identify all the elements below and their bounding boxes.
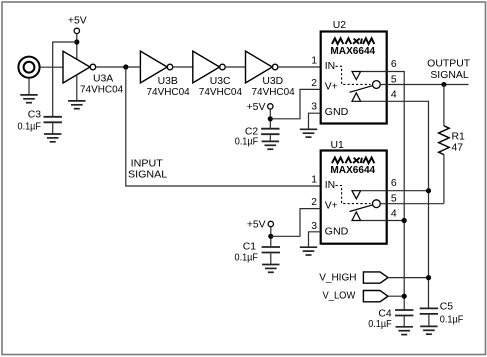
high-side driver triangle [352, 191, 361, 199]
svg-text:INPUT: INPUT [131, 159, 164, 170]
dashed net IN- to switch [336, 186, 371, 204]
capacitor C3 [18, 110, 62, 134]
svg-text:C1: C1 [243, 241, 257, 252]
svg-text:0.1µF: 0.1µF [235, 136, 259, 147]
svg-text:3: 3 [311, 102, 317, 113]
wire [96, 66, 141, 68]
connector J1 [18, 57, 39, 78]
svg-text:3: 3 [311, 221, 317, 232]
svg-text:U3C: U3C [210, 76, 231, 87]
wire V+ U1 [271, 209, 321, 237]
junction [74, 39, 79, 44]
low-side driver triangle [352, 212, 361, 221]
svg-text:74VHC04: 74VHC04 [80, 85, 123, 96]
switch output bubble pin5 [373, 200, 381, 208]
svg-text:OUTPUT: OUTPUT [427, 58, 471, 69]
svg-text:+5V: +5V [247, 102, 266, 113]
low-side driver triangle [352, 93, 361, 102]
node OUTPUT SIGNAL [427, 58, 471, 81]
svg-text:0.1µF: 0.1µF [235, 252, 259, 263]
svg-text:47: 47 [452, 143, 464, 154]
ground [262, 265, 279, 273]
svg-text:IN: IN [325, 180, 335, 191]
capacitor C5 [420, 302, 464, 327]
ground [20, 95, 37, 103]
svg-text:MAX6644: MAX6644 [330, 46, 375, 57]
svg-text:+5V: +5V [68, 15, 87, 26]
wire [76, 34, 78, 60]
svg-text:5: 5 [391, 194, 397, 205]
capacitor C4 [368, 308, 413, 330]
wire [225, 66, 245, 68]
wire pin4 U2 [361, 101, 429, 308]
IC U1 MAX6644 [321, 140, 387, 244]
inverter U3B 74VHC04 [140, 51, 190, 98]
wire [270, 227, 272, 247]
+5V supply U1 [247, 219, 274, 230]
ground [44, 134, 61, 142]
switch wiper [350, 205, 373, 212]
junction [268, 234, 273, 239]
svg-text:U2: U2 [333, 20, 347, 31]
svg-text:MAX6644: MAX6644 [330, 165, 375, 176]
svg-text:0.1µF: 0.1µF [368, 319, 392, 330]
ground [396, 327, 413, 335]
svg-text:U3D: U3D [262, 76, 283, 87]
svg-text:1: 1 [311, 175, 317, 186]
svg-text:74VHC04: 74VHC04 [252, 87, 295, 98]
wire [269, 109, 271, 128]
svg-text:6: 6 [391, 178, 397, 189]
svg-text:1: 1 [311, 55, 317, 66]
svg-text:2: 2 [311, 78, 317, 89]
+5V supply U2 [247, 102, 273, 113]
high-side driver triangle [352, 72, 361, 80]
svg-text:+5V: +5V [247, 219, 266, 230]
node V_LOW [323, 291, 389, 302]
ground [68, 101, 85, 109]
svg-text:C4: C4 [378, 308, 392, 319]
svg-text:V_HIGH: V_HIGH [319, 272, 356, 283]
junction [402, 294, 407, 299]
svg-text:U3A: U3A [93, 74, 113, 85]
wire pin4 U1 [361, 220, 405, 222]
svg-text:2: 2 [311, 197, 317, 208]
svg-text:IN: IN [325, 61, 335, 72]
svg-text:74VHC04: 74VHC04 [199, 87, 242, 98]
node V_HIGH [319, 272, 388, 284]
svg-text:GND: GND [325, 226, 349, 237]
switch wiper [350, 86, 373, 93]
MAXIM logo U2 [332, 38, 374, 44]
wire [53, 42, 77, 116]
svg-text:V+: V+ [325, 201, 338, 212]
wire pin6 U2 [361, 72, 405, 311]
inverter U3C 74VHC04 [193, 51, 242, 98]
svg-text:U3B: U3B [158, 76, 178, 87]
svg-text:C3: C3 [28, 110, 42, 121]
svg-text:C5: C5 [440, 302, 454, 313]
svg-text:SIGNAL: SIGNAL [128, 170, 167, 181]
wire [28, 78, 30, 95]
capacitor C1 [235, 241, 281, 264]
ground [262, 141, 279, 149]
wire pin5 U1 [380, 203, 444, 205]
junction [402, 218, 407, 223]
resistor R1 47 [439, 126, 465, 155]
inverter U3D 74VHC04 [246, 51, 295, 98]
svg-text:V_LOW: V_LOW [323, 291, 356, 302]
junction [426, 275, 431, 280]
wire [443, 155, 445, 204]
wire V+ U2 [270, 89, 320, 118]
junction [441, 82, 446, 87]
wire GND pin3 U2 [309, 113, 321, 129]
wire [76, 75, 78, 101]
wire [388, 295, 404, 297]
junction [426, 188, 431, 193]
svg-text:4: 4 [391, 209, 397, 220]
svg-text:4: 4 [391, 89, 397, 100]
inverter U3A 74VHC04 [63, 51, 123, 95]
node INPUT SIGNAL label [128, 159, 167, 181]
svg-text:SIGNAL: SIGNAL [430, 70, 469, 81]
wire [388, 277, 429, 279]
switch output bubble pin5 [373, 81, 381, 89]
junction node INPUT [123, 64, 128, 69]
junction [268, 116, 273, 121]
svg-text:R1: R1 [452, 132, 466, 143]
wire [443, 85, 445, 127]
+5V supply [68, 15, 87, 33]
ground [300, 247, 317, 255]
svg-text:U1: U1 [331, 140, 345, 151]
svg-text:0.1µF: 0.1µF [18, 122, 42, 133]
ground [300, 129, 317, 137]
MAXIM logo U1 [332, 158, 374, 164]
dashed net IN- to switch [336, 66, 371, 84]
wire [173, 66, 193, 68]
wire INPUT SIGNAL [126, 67, 321, 186]
svg-text:V+: V+ [325, 82, 338, 93]
ground [420, 326, 437, 334]
svg-text:6: 6 [391, 59, 397, 70]
IC U2 MAX6644 [321, 20, 387, 124]
svg-text:5: 5 [391, 74, 397, 85]
wire pin6 U1 [361, 190, 429, 192]
wire [40, 66, 63, 68]
capacitor C2 [235, 127, 280, 148]
svg-text:GND: GND [325, 107, 349, 118]
svg-text:0.1µF: 0.1µF [440, 314, 464, 325]
wire pin5 U2 OUTPUT [380, 84, 468, 86]
wire pin1 U2 [278, 66, 321, 68]
svg-text:74VHC04: 74VHC04 [147, 87, 190, 98]
wire GND pin3 U1 [309, 232, 321, 247]
